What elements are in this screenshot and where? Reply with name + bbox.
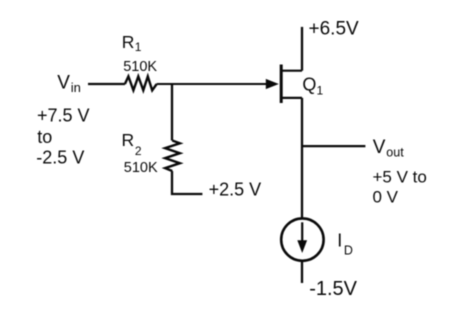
svg-text:+7.5 V: +7.5 V	[37, 106, 90, 126]
transistor Q1	[281, 65, 302, 104]
wire R1 to gate arrow	[157, 83, 267, 85]
svg-text:I: I	[337, 231, 342, 251]
svg-text:+2.5 V: +2.5 V	[209, 180, 262, 200]
current source I_D	[281, 218, 323, 260]
wire R2 bottom to +2.5V	[172, 171, 202, 194]
svg-text:+5 V to: +5 V to	[373, 167, 427, 186]
wire source down to current source	[301, 98, 303, 218]
svg-text:-2.5 V: -2.5 V	[36, 147, 84, 167]
svg-text:out: out	[386, 146, 404, 160]
svg-text:510K: 510K	[124, 160, 158, 176]
svg-text:0 V: 0 V	[373, 188, 399, 207]
wire drain to +6.5V	[301, 27, 303, 71]
svg-text:to: to	[37, 127, 52, 147]
wire current source to -1.5V	[301, 262, 303, 284]
svg-text:-1.5V: -1.5V	[309, 278, 357, 300]
svg-text:D: D	[344, 244, 353, 258]
resistor R1	[125, 76, 157, 90]
svg-text:Q: Q	[302, 74, 316, 94]
svg-text:R: R	[122, 130, 135, 150]
resistor R2	[165, 141, 180, 172]
svg-text:+6.5V: +6.5V	[309, 18, 360, 39]
svg-text:V: V	[373, 137, 386, 158]
svg-text:2: 2	[135, 144, 142, 158]
svg-text:1: 1	[317, 83, 324, 97]
current source arrow	[301, 222, 303, 243]
wire Vout branch	[302, 145, 365, 147]
svg-text:R: R	[122, 32, 135, 52]
svg-text:in: in	[71, 80, 81, 95]
node junction vertical wire	[171, 84, 173, 141]
svg-text:1: 1	[135, 40, 142, 54]
svg-text:V: V	[57, 73, 70, 94]
gate arrowhead	[266, 79, 279, 89]
svg-text:510K: 510K	[123, 59, 157, 75]
wire Vin lead	[88, 83, 125, 85]
